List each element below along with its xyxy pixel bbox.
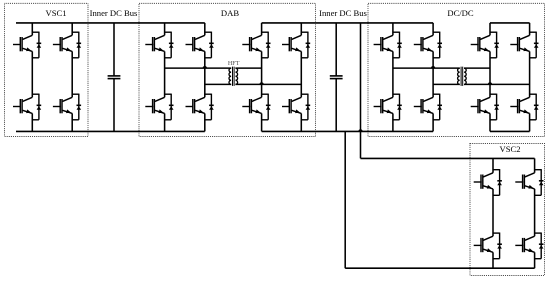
wire hop: T1 primary top wire over DAB leg B [203,66,207,68]
wire: VSC1 leg A spine [31,23,33,131]
IGBT Q14 with antiparallel diode (DC/DC primary leg A bottom) [374,94,402,120]
IGBT Q11 with antiparallel diode (DAB secondary leg B top) [282,32,310,58]
svg-text:HFT: HFT [228,60,240,67]
wire: -DC rail segment 1 [16,130,205,132]
IGBT Q1 with antiparallel diode (VSC1 leg A top) [13,32,41,58]
capacitor C1 (inner DC bus left) [108,23,121,131]
wire: DAB leg A midpoint to T1 primary top [165,67,232,69]
wire hop: T2 secondary bottom wire over DC/DC secondary leg A [488,82,492,84]
IGBT Q6 with antiparallel diode (DAB primary leg A bottom) [145,94,173,120]
dashed box DAB [139,3,316,136]
IGBT Q7 with antiparallel diode (DAB primary leg B top) [186,32,214,58]
IGBT Q12 with antiparallel diode (DAB secondary leg B bottom) [282,94,310,120]
capacitor C2 (inner DC bus right) [330,23,343,131]
wire hop: T2 primary top wire over DC/DC leg B [431,66,435,68]
wire: DAB primary leg B spine [204,23,206,131]
wire: T1 secondary bottom to DAB secondary leg B midpoint [235,83,301,85]
IGBT Q20 with antiparallel diode (DC/DC secondary leg B bottom) [510,94,538,120]
IGBT Q13 with antiparallel diode (DC/DC primary leg A top) [374,32,402,58]
IGBT Q5 with antiparallel diode (DAB primary leg A top) [145,32,173,58]
wire: DAB secondary leg B spine [300,23,302,131]
wire: DC/DC leg A midpoint to T2 primary top [393,67,460,69]
wire: DC/DC primary leg A spine [392,23,394,131]
wire: T2 secondary top to DC/DC secondary leg A midpoint [464,67,490,69]
dashed box VSC2 [470,144,545,276]
wire: DC/DC leg B midpoint to T2 primary bottom [433,83,460,85]
svg-text:VSC2: VSC2 [499,144,520,154]
IGBT Q22 with antiparallel diode (VSC2 leg A bottom) [474,233,502,259]
IGBT Q4 with antiparallel diode (VSC1 leg B bottom) [53,94,81,120]
IGBT Q2 with antiparallel diode (VSC1 leg A bottom) [13,94,41,120]
wire hop: -DC rail over VSC2 top-rail drop [358,129,362,131]
wire: DC/DC primary leg B spine [432,23,434,131]
IGBT Q10 with antiparallel diode (DAB secondary leg A bottom) [242,94,270,120]
svg-text:VSC1: VSC1 [45,8,66,18]
wire: T2 secondary bottom to DC/DC secondary leg B midpoint [464,83,530,85]
transformer T1 (HFT) [229,67,238,86]
wire: -DC rail segment 3 [490,130,530,132]
wire: -DC rail segment 2 [262,130,434,132]
wire: +DC rail segment 2 (DAB secondary / bus / DC-DC primary bridge) [262,22,434,24]
wire: DAB primary leg A spine [164,23,166,131]
wire hop: T1 secondary bottom wire over DAB secondary leg A [259,82,263,84]
svg-text:DC/DC: DC/DC [447,8,474,18]
IGBT Q8 with antiparallel diode (DAB primary leg B bottom) [186,94,214,120]
wire: VSC2 top rail (horizontal) [361,157,535,159]
wire: T1 secondary top to DAB secondary leg A midpoint [235,67,261,69]
IGBT Q24 with antiparallel diode (VSC2 leg B bottom) [515,233,543,259]
wire: VSC2 bottom rail (horizontal) [345,267,534,269]
wire: DAB leg B midpoint to T1 primary bottom [205,83,231,85]
wire: +DC rail segment 3 (DC-DC secondary bridge) [490,22,530,24]
IGBT Q21 with antiparallel diode (VSC2 leg A top) [474,169,502,195]
wire: DC/DC secondary leg A spine [489,23,491,131]
IGBT Q16 with antiparallel diode (DC/DC primary leg B bottom) [414,94,442,120]
svg-text:DAB: DAB [221,8,239,18]
IGBT Q17 with antiparallel diode (DC/DC secondary leg A top) [471,32,499,58]
dashed box VSC1 [5,3,89,136]
wire: DAB secondary leg A spine [261,23,263,131]
IGBT Q3 with antiparallel diode (VSC1 leg B top) [53,32,81,58]
transformer T2 [458,67,467,86]
wire: -DC rail drop to VSC2 bottom rail (vertical) [344,131,346,268]
svg-text:Inner DC Bus: Inner DC Bus [319,8,367,18]
wire: VSC1 leg B spine [71,23,73,131]
wire: +DC rail segment 1 (VSC1 / bus / DAB primary bridge) [16,22,205,24]
wire: DC/DC secondary leg B spine [529,23,531,131]
dashed box DC/DC [368,3,545,136]
IGBT Q18 with antiparallel diode (DC/DC secondary leg A bottom) [471,94,499,120]
wire: +DC rail drop to VSC2 top rail (vertical) [360,23,362,159]
IGBT Q23 with antiparallel diode (VSC2 leg B top) [515,169,543,195]
IGBT Q9 with antiparallel diode (DAB secondary leg A top) [242,32,270,58]
svg-text:Inner DC Bus: Inner DC Bus [90,8,138,18]
IGBT Q19 with antiparallel diode (DC/DC secondary leg B top) [510,32,538,58]
IGBT Q15 with antiparallel diode (DC/DC primary leg B top) [414,32,442,58]
wire: VSC2 leg A spine [492,158,494,268]
wire: VSC2 leg B spine [534,158,536,268]
